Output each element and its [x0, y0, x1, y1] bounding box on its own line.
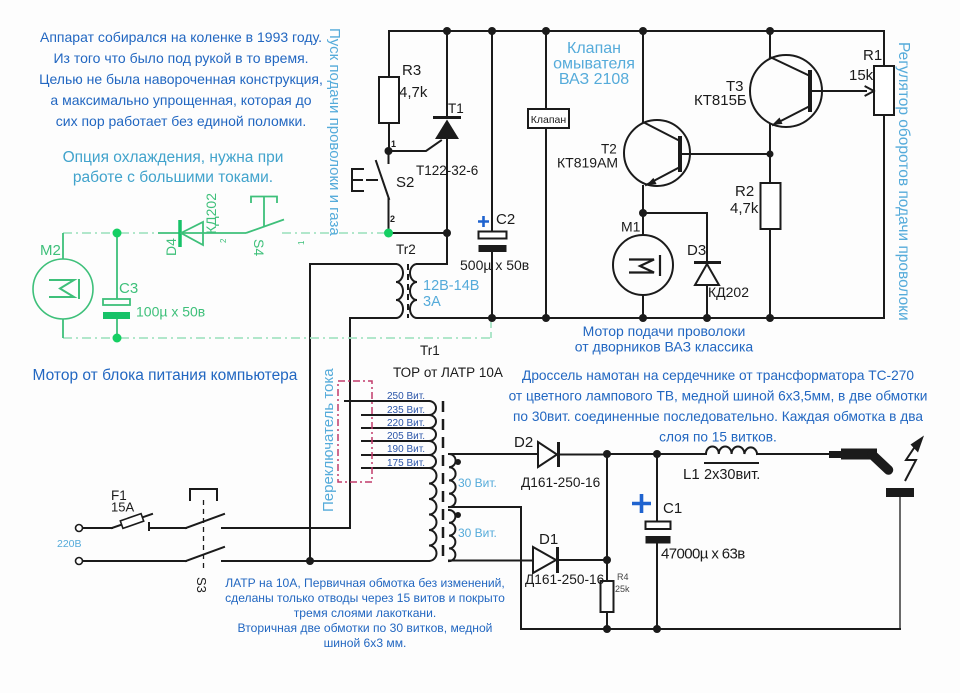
svg-text:от дворников ВАЗ классика: от дворников ВАЗ классика: [575, 339, 754, 355]
switch S3 pole a: [186, 514, 224, 528]
node 1 junction: [385, 147, 393, 155]
svg-text:4,7k: 4,7k: [730, 200, 759, 217]
fuse F1: [112, 514, 152, 528]
svg-text:15А: 15А: [111, 500, 134, 515]
svg-text:12В-14В: 12В-14В: [423, 278, 479, 294]
svg-text:Вторичная две обмотки по 30 ви: Вторичная две обмотки по 30 витков, медн…: [238, 621, 493, 635]
Tr1 tap 235: [362, 414, 429, 416]
polarity dot winding 1: [455, 459, 461, 465]
junction dots rectifier: [603, 450, 611, 458]
cooling option dash-dot top link: [63, 232, 158, 234]
svg-text:от цветного лампового ТВ, медн: от цветного лампового ТВ, медной шиной 6…: [509, 389, 928, 404]
svg-text:Мотор от блока питания компьют: Мотор от блока питания компьютера: [33, 367, 298, 384]
wire green solid segment: [158, 232, 246, 234]
svg-text:250 Вит.: 250 Вит.: [387, 391, 425, 402]
wire workpiece return: [899, 497, 901, 629]
transformer Tr2: [310, 233, 447, 264]
svg-text:C3: C3: [119, 280, 138, 297]
bottom 0V rail: [521, 628, 900, 630]
Tr1 tap 190: [362, 454, 429, 456]
svg-text:100µ x 50в: 100µ x 50в: [136, 304, 205, 320]
svg-text:175 Вит.: 175 Вит.: [387, 458, 425, 469]
transformer Tr1 primary winding: [429, 401, 437, 561]
svg-text:2х30вит.: 2х30вит.: [704, 467, 760, 483]
svg-text:D4: D4: [163, 238, 179, 256]
green junction node C3 top: [113, 229, 122, 238]
svg-text:2: 2: [219, 238, 228, 243]
svg-text:D1: D1: [539, 531, 558, 548]
svg-text:КТ819АМ: КТ819АМ: [557, 155, 618, 171]
svg-text:205 Вит.: 205 Вит.: [387, 431, 425, 442]
wire fuse to S3: [150, 527, 186, 529]
svg-text:D3: D3: [687, 242, 706, 259]
svg-text:M1: M1: [621, 219, 641, 235]
wire M1 node to D3: [643, 212, 707, 214]
svg-text:Дроссель намотан на сердечнике: Дроссель намотан на сердечнике от трансф…: [522, 368, 914, 383]
svg-text:Tr1: Tr1: [420, 343, 440, 358]
svg-text:Из того что было под рукой в т: Из того что было под рукой в то время.: [53, 50, 308, 66]
junction dots top bus: [443, 27, 451, 35]
svg-text:слоя по 15 витков.: слоя по 15 витков.: [659, 430, 777, 445]
svg-text:работе с большими токами.: работе с большими токами.: [73, 169, 273, 186]
wire T1 gate: [389, 141, 442, 152]
diode D3: [706, 213, 708, 318]
resistor R4: [601, 581, 614, 612]
svg-text:Tr2: Tr2: [396, 242, 416, 257]
resistor R3: [388, 31, 390, 151]
svg-text:сих пор работает без единой по: сих пор работает без единой поломки.: [56, 113, 306, 129]
svg-text:S3: S3: [194, 577, 209, 593]
svg-text:Клапан: Клапан: [567, 40, 621, 57]
svg-text:T122-32-6: T122-32-6: [416, 163, 478, 178]
capacitor C3: [116, 233, 118, 338]
svg-text:тремя слоями лакоткани.: тремя слоями лакоткани.: [294, 606, 436, 620]
wire winding2 bottom to D1: [449, 560, 533, 562]
wire live in: [83, 527, 112, 529]
Tr1 tap 175: [362, 467, 429, 469]
motor M2: [62, 233, 64, 338]
svg-text:ВАЗ 2108: ВАЗ 2108: [559, 71, 629, 88]
svg-text:R4: R4: [617, 572, 629, 582]
svg-text:C2: C2: [496, 211, 515, 228]
capacitor C2: [491, 31, 493, 318]
Tr1 tap 205: [362, 440, 429, 442]
junction base node: [767, 151, 774, 158]
inductor L1: [706, 447, 757, 454]
wire center tap: [449, 507, 521, 629]
svg-text:D2: D2: [514, 434, 533, 451]
svg-text:Целью не была навороченная кон: Целью не была навороченная конструкция,: [39, 71, 323, 87]
wire bottom control bus: [350, 317, 884, 319]
valve solenoid box (Клапан): [545, 31, 547, 318]
svg-text:S2: S2: [396, 174, 414, 191]
svg-text:15k: 15k: [849, 67, 874, 84]
electrode holder: [829, 451, 842, 458]
svg-text:Аппарат собирался на коленке в: Аппарат собирался на коленке в 1993 году…: [40, 29, 322, 45]
resistor R2: [769, 154, 771, 318]
junction neutral / Tr2 primary: [306, 557, 314, 565]
terminal 220V neutral: [76, 558, 83, 565]
svg-text:L1: L1: [683, 466, 700, 483]
transistor T3: [750, 55, 822, 127]
capacitor C1: [656, 454, 658, 629]
potentiometer R1: [874, 66, 894, 115]
svg-text:ЛАТР на 10А, Первичная обмотка: ЛАТР на 10А, Первичная обмотка без измен…: [225, 576, 505, 590]
svg-text:235 Вит.: 235 Вит.: [387, 405, 425, 416]
svg-text:2: 2: [390, 214, 395, 224]
switch S3 actuator bracket: [190, 489, 217, 500]
polarity dot winding 2: [455, 512, 461, 518]
plus sign C1: [632, 494, 651, 513]
svg-text:M2: M2: [40, 242, 61, 259]
Tr1 secondary winding 2: [449, 510, 455, 561]
svg-text:Переключатель тока: Переключатель тока: [320, 368, 337, 512]
switch S2: [376, 151, 389, 233]
switch S4: [246, 220, 284, 234]
switch S3 pole b: [186, 547, 224, 561]
svg-text:омывателя: омывателя: [553, 56, 635, 73]
wire D2 node down through R4: [606, 454, 608, 629]
plus sign C2: [478, 216, 489, 227]
svg-text:220 Вит.: 220 Вит.: [387, 418, 425, 429]
svg-text:190 Вит.: 190 Вит.: [387, 444, 425, 455]
Tr1 tap 250: [345, 400, 429, 402]
wire neutral to Tr1 primary: [222, 560, 429, 562]
svg-text:Д161-250-16: Д161-250-16: [521, 475, 601, 490]
svg-text:C1: C1: [663, 500, 682, 517]
wire neutral in: [83, 560, 186, 562]
svg-text:220В: 220В: [57, 538, 82, 550]
wire node2 to T1 cathode rail: [389, 232, 448, 234]
svg-text:Опция охлаждения, нужна при: Опция охлаждения, нужна при: [63, 149, 284, 166]
junction T2 emitter / M1: [639, 209, 647, 217]
diode D2: [538, 442, 557, 467]
svg-text:Мотор подачи проволоки: Мотор подачи проволоки: [583, 323, 746, 339]
svg-text:T1: T1: [448, 101, 464, 116]
svg-text:R1: R1: [863, 47, 882, 64]
arc lightning symbol: [905, 444, 917, 482]
transistor T2: [624, 120, 690, 186]
wire plus rail: [607, 453, 706, 455]
svg-text:30 Вит.: 30 Вит.: [458, 526, 497, 540]
green node 2 on S2 wire: [384, 229, 393, 238]
svg-text:Пуск подачи проволоки и газа: Пуск подачи проволоки и газа: [326, 28, 343, 236]
junction on T1 rail: [443, 229, 451, 237]
svg-text:3А: 3А: [423, 294, 441, 310]
svg-text:КД202: КД202: [708, 284, 749, 300]
svg-text:25k: 25k: [615, 584, 630, 594]
tap selector boundary (magenta): [338, 381, 372, 482]
wire right rail to R1: [883, 31, 885, 318]
svg-text:S4: S4: [251, 239, 267, 256]
svg-text:а максимально упрощенная, кото: а максимально упрощенная, которая до: [50, 92, 311, 108]
svg-text:1: 1: [391, 139, 396, 149]
diode D1: [533, 547, 556, 573]
svg-text:ТОР от ЛАТР 10А: ТОР от ЛАТР 10А: [393, 365, 503, 380]
diode D4: [178, 220, 182, 247]
svg-text:500µ x 50в: 500µ x 50в: [460, 257, 529, 273]
svg-text:30 Вит.: 30 Вит.: [458, 476, 497, 490]
wire winding1 top to D2: [449, 453, 537, 455]
svg-text:47000µ x 63в: 47000µ x 63в: [661, 546, 745, 563]
svg-text:R3: R3: [402, 62, 421, 79]
svg-text:Клапан: Клапан: [531, 114, 567, 126]
wire L1 to electrode holder: [757, 453, 830, 455]
svg-text:Д161-250-16: Д161-250-16: [525, 572, 605, 587]
junction dots bottom bus: [488, 314, 496, 322]
wire live to tap rail: [222, 527, 350, 529]
svg-text:КД202: КД202: [203, 193, 219, 234]
wire top supply bus: [389, 30, 884, 32]
green junction node C3 bottom: [113, 334, 122, 343]
svg-text:4,7k: 4,7k: [399, 84, 428, 101]
cooling option dash-dot bottom link: [63, 337, 491, 339]
svg-text:1: 1: [297, 240, 306, 245]
svg-text:КТ815Б: КТ815Б: [694, 92, 747, 109]
thyristor T1: [446, 31, 448, 264]
terminal 220V live: [76, 525, 83, 532]
svg-text:R2: R2: [735, 183, 754, 200]
Tr1 core: [442, 401, 445, 561]
Tr1 secondary winding 1: [449, 454, 456, 507]
motor M1: [642, 213, 644, 318]
svg-text:сделаны только отводы через 15: сделаны только отводы через 15 витов и п…: [225, 591, 505, 605]
wire Tr2 primary rails: [310, 264, 350, 561]
svg-text:Регулятор оборотов подачи пров: Регулятор оборотов подачи проволоки: [895, 42, 912, 321]
Tr1 tap 220: [362, 427, 429, 429]
svg-text:шиной 6х3 мм.: шиной 6х3 мм.: [324, 636, 407, 650]
workpiece plate: [886, 488, 914, 497]
svg-text:по 30вит. соединенные последов: по 30вит. соединенные последовательно. К…: [513, 409, 923, 424]
